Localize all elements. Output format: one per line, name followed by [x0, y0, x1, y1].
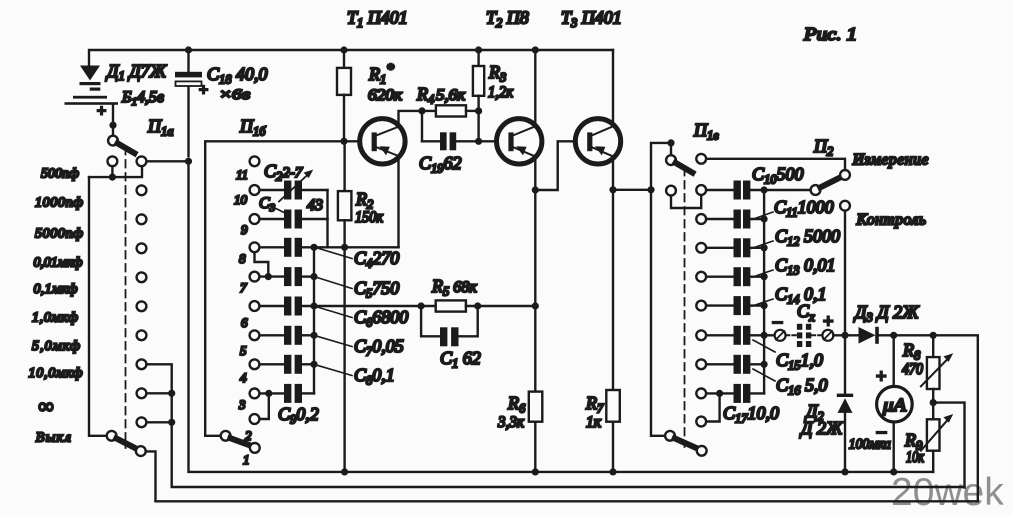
P1v right bus [763, 190, 765, 393]
junction C18 top [185, 46, 192, 53]
wire left rail down to P1v lower wiper [651, 190, 665, 436]
T1 emitter wire down [397, 156, 399, 247]
P1v upper wiper bar [676, 163, 693, 173]
svg-text:10: 10 [234, 192, 248, 207]
svg-text:1,0мкф: 1,0мкф [32, 311, 78, 326]
svg-text:C80,1: C80,1 [354, 365, 395, 388]
svg-text:C4270: C4270 [354, 248, 399, 271]
wire T3 emitter to P1v [613, 189, 651, 191]
capacitor Cx dashed [786, 334, 822, 336]
resistor R4 [422, 105, 479, 116]
link bottom contact to C17 row [706, 393, 719, 421]
junction row7 [265, 273, 272, 280]
resistor R3 [473, 50, 484, 111]
T2 collector wire to bus [534, 50, 536, 126]
junction T3 emitter node [609, 186, 616, 193]
switch P1a lower wiper (Vykl) pivot [107, 431, 117, 441]
svg-text:Д 2Ж: Д 2Ж [799, 418, 844, 438]
junction bus row7 [310, 273, 317, 280]
junction R8/R9 [930, 399, 937, 406]
stem to P1v wiper [670, 143, 672, 155]
capacitor C8 row 4 [260, 363, 314, 365]
link contact8 to row7 [255, 253, 269, 277]
wire R2 node down to bottom rail [343, 247, 345, 472]
resistor R7 [606, 390, 620, 472]
junction C9 left [265, 390, 272, 397]
svg-text:5,0мкф: 5,0мкф [32, 339, 80, 354]
capacitor C7 row 5 [260, 334, 314, 336]
P1v lower wiper pivot [665, 431, 675, 441]
wire vykl contact [146, 421, 171, 423]
svg-text:3,3к: 3,3к [497, 414, 524, 431]
svg-text:Т3 П401: Т3 П401 [561, 8, 622, 31]
svg-text:C1 62: C1 62 [440, 348, 481, 371]
capacitor C14 row [706, 304, 764, 306]
svg-text:C1710,0: C1710,0 [723, 403, 779, 426]
capacitor C9 row 3 [260, 392, 314, 394]
svg-text:11: 11 [236, 167, 248, 182]
junction bus row5 [310, 332, 317, 339]
wire R8-R9 node to bus2 [933, 403, 964, 488]
T3 collector wire to bus [612, 50, 614, 126]
svg-text:150к: 150к [355, 209, 383, 226]
link contact2 to row3 [260, 393, 269, 419]
leader C15 [753, 340, 775, 352]
svg-text:5000пф: 5000пф [35, 227, 83, 242]
wire meter to bottom rail [893, 422, 895, 472]
trimmer arrow C2 [279, 174, 309, 202]
capacitor C11 row [706, 218, 764, 220]
svg-text:1,2к: 1,2к [488, 84, 513, 101]
T1 collector wire to R4 node [399, 111, 423, 127]
svg-text:10,0мкф: 10,0мкф [29, 366, 83, 381]
svg-text:5,6к: 5,6к [436, 87, 466, 104]
wire T2 emitter to T3 base [535, 141, 575, 190]
diode D3 [859, 327, 879, 344]
junction on C18 line [185, 158, 192, 165]
svg-text:Рис. 1: Рис. 1 [803, 24, 857, 44]
link left contact to C10 row [671, 196, 701, 208]
svg-text:1000пф: 1000пф [35, 196, 83, 211]
capacitor C15 row (Cx row) [706, 334, 774, 336]
svg-text:100мка: 100мка [849, 437, 891, 453]
svg-text:20wek: 20wek [891, 471, 1004, 514]
microammeter [893, 335, 895, 386]
capacitor C10 row [706, 189, 810, 191]
capacitor C5 row 7 [260, 275, 314, 277]
wire Kontrol down [844, 211, 846, 394]
resistor R1 [337, 50, 351, 141]
capacitor C6 row 6 [260, 305, 421, 307]
svg-text:×6в: ×6в [219, 87, 251, 103]
P1a left vertical to Vykl wiper [89, 177, 106, 436]
P1b right bus [313, 247, 315, 393]
svg-text:+: + [198, 82, 209, 99]
svg-text:C10500: C10500 [752, 164, 804, 187]
leader C16 [753, 369, 775, 381]
svg-text:Б14,5в: Б14,5в [121, 89, 164, 108]
bottom rail 2 [172, 486, 965, 488]
P1v mechanical dashed link [684, 168, 686, 447]
capacitor C1 [421, 306, 478, 336]
svg-text:Т2 П8: Т2 П8 [486, 8, 529, 31]
svg-text:6: 6 [241, 315, 248, 330]
svg-text:–: – [772, 311, 783, 331]
svg-text:C13 0,01: C13 0,01 [775, 255, 836, 278]
P1b contact column 11..2 [250, 156, 260, 424]
Vykl wiper bar [116, 438, 136, 448]
svg-text:470: 470 [902, 361, 923, 378]
svg-text:+: + [875, 366, 887, 386]
svg-text:μА: μА [882, 395, 907, 415]
leader C5 [316, 277, 353, 289]
svg-text:0,01мкф: 0,01мкф [34, 256, 83, 271]
T2 emitter wire down [534, 156, 536, 391]
wire plus terminal to Kontrol rail [833, 334, 858, 336]
stem left contact to 500pf wire [111, 167, 113, 178]
resistor R2 [338, 141, 352, 247]
svg-text:Д1 Д7Ж: Д1 Д7Ж [105, 61, 168, 83]
top supply bus [89, 50, 613, 66]
bottom rail 3 (common) [189, 161, 934, 472]
capacitor C19 [422, 111, 479, 141]
svg-text:∞: ∞ [39, 394, 54, 418]
svg-text:+: + [96, 103, 107, 120]
capacitor C4 row 8 and T1 emitter rail [260, 246, 399, 248]
P1v left contact [666, 186, 676, 196]
svg-text:C16 5,0: C16 5,0 [776, 375, 828, 398]
wire C19 to T2 base [479, 140, 497, 142]
svg-text:620к: 620к [368, 87, 403, 104]
svg-text:1: 1 [243, 452, 250, 467]
P1v upper wiper pivot [666, 155, 676, 165]
svg-text:C12 5000: C12 5000 [775, 226, 840, 249]
svg-text:4: 4 [240, 370, 247, 385]
terminal Cx minus [775, 330, 786, 341]
junction on 500pf wire [109, 174, 116, 181]
contact Kontrol [840, 201, 850, 211]
svg-text:Контроль: Контроль [856, 212, 926, 229]
resistor R6 [529, 392, 543, 472]
svg-text:C90,2: C90,2 [278, 404, 319, 427]
leader C12 [752, 241, 773, 248]
terminal Cx plus [822, 330, 833, 341]
P1b wiper pivot [221, 431, 231, 441]
resistor R9 variable [927, 403, 940, 472]
P1b wiper bar [230, 438, 250, 445]
P1a contact column [137, 156, 147, 427]
leader C6 [316, 307, 353, 318]
wire D3 output rail [879, 335, 978, 501]
wire C2-C3 right link [326, 190, 328, 247]
capacitor C12 row [706, 247, 764, 249]
P1a left contact row1 [108, 156, 118, 166]
battery B1 [65, 96, 119, 105]
wire P1v common from T3 node [651, 143, 671, 190]
junction bus row4 [310, 361, 317, 368]
svg-text:Измерение: Измерение [852, 152, 929, 169]
capacitor C18 [187, 50, 189, 156]
leader C3 [273, 207, 285, 213]
switch P2 pivot [811, 185, 821, 195]
capacitor C3 row 9 [260, 218, 328, 220]
switch P1a wiper bar [118, 143, 135, 153]
svg-text:–: – [90, 80, 100, 97]
wire D2 to bottom rail [844, 413, 846, 472]
svg-text:10к: 10к [906, 449, 924, 466]
svg-text:Т1 П401: Т1 П401 [347, 8, 408, 31]
leader C14 [752, 299, 773, 306]
leader C13 [752, 270, 773, 277]
resistor R5 [418, 302, 425, 309]
wire battery to P1a wiper [112, 105, 114, 136]
svg-text:2: 2 [245, 428, 252, 443]
P1b wiper tip contact 1 [250, 443, 260, 453]
junction R2 bottom [341, 244, 348, 251]
capacitor C13 row [706, 276, 764, 278]
capacitor C2 (trimmer 2-7) row 10 [260, 189, 328, 191]
svg-text:C22-7: C22-7 [264, 161, 304, 184]
Vykl wiper tip contact [136, 446, 146, 456]
svg-text:7: 7 [240, 280, 247, 295]
leader C8 [316, 365, 353, 376]
junction bus top row8 [310, 244, 317, 251]
svg-text:0,1мкф: 0,1мкф [34, 282, 78, 297]
svg-text:C5750: C5750 [354, 278, 399, 301]
svg-text:9: 9 [241, 222, 248, 237]
P1v lower wiper tip [697, 446, 707, 456]
svg-text:C18 40,0: C18 40,0 [207, 64, 268, 87]
junction bus row6 [310, 302, 317, 309]
svg-text:8: 8 [239, 251, 246, 266]
junction T2 emitter node [532, 186, 539, 193]
wire inf contact [146, 392, 171, 394]
svg-text:1к: 1к [586, 414, 601, 431]
T3 emitter wire down [612, 156, 614, 390]
wire Vykl tip to bottom bus [146, 451, 156, 501]
switch P1a wiper pivot [108, 136, 118, 146]
wire contact1 to P2 Izmerenie [706, 159, 845, 170]
P1v contact column [696, 154, 706, 427]
svg-text:C111000: C111000 [774, 197, 834, 220]
P1a mechanical dashed link [125, 147, 127, 448]
junction [109, 122, 116, 129]
transistor T2 [497, 119, 542, 164]
capacitor C17 row [706, 392, 764, 394]
diode D1 [80, 66, 101, 86]
svg-text:C70,05: C70,05 [354, 336, 404, 359]
P1a row1 right contact wire to C18 line [147, 160, 189, 162]
svg-text:5: 5 [240, 343, 247, 358]
junction R4 right [475, 107, 482, 114]
transistor T1 [360, 119, 405, 164]
svg-text:3: 3 [238, 397, 246, 412]
bottom rail 1 [156, 500, 978, 502]
svg-text:+: + [822, 311, 834, 331]
junction T1 base [340, 138, 347, 145]
switch P2 wiper bar [820, 177, 840, 187]
svg-text:Выкл: Выкл [36, 431, 71, 446]
svg-text:R5 68к: R5 68к [431, 276, 477, 299]
capacitor C16 row [706, 363, 764, 365]
svg-text:500пф: 500пф [41, 167, 79, 182]
leader C7 [316, 336, 353, 347]
500pf row wire [89, 167, 142, 178]
svg-text:43: 43 [307, 197, 323, 214]
contact Izmerenie [840, 170, 850, 180]
wire P1b common: T1 base rail [205, 141, 360, 436]
svg-text:C66800: C66800 [354, 307, 408, 330]
svg-text:Д3 Д 2Ж: Д3 Д 2Ж [853, 302, 920, 325]
P1v lower wiper bar [675, 438, 698, 448]
leader C11 [752, 212, 773, 220]
diode D2 [837, 394, 853, 413]
resistor R8 variable [927, 335, 940, 402]
junction R4 left [418, 107, 425, 114]
wire 10,0mkf contact [146, 364, 171, 486]
leader C4 [316, 248, 353, 259]
transistor T3 [575, 119, 620, 164]
